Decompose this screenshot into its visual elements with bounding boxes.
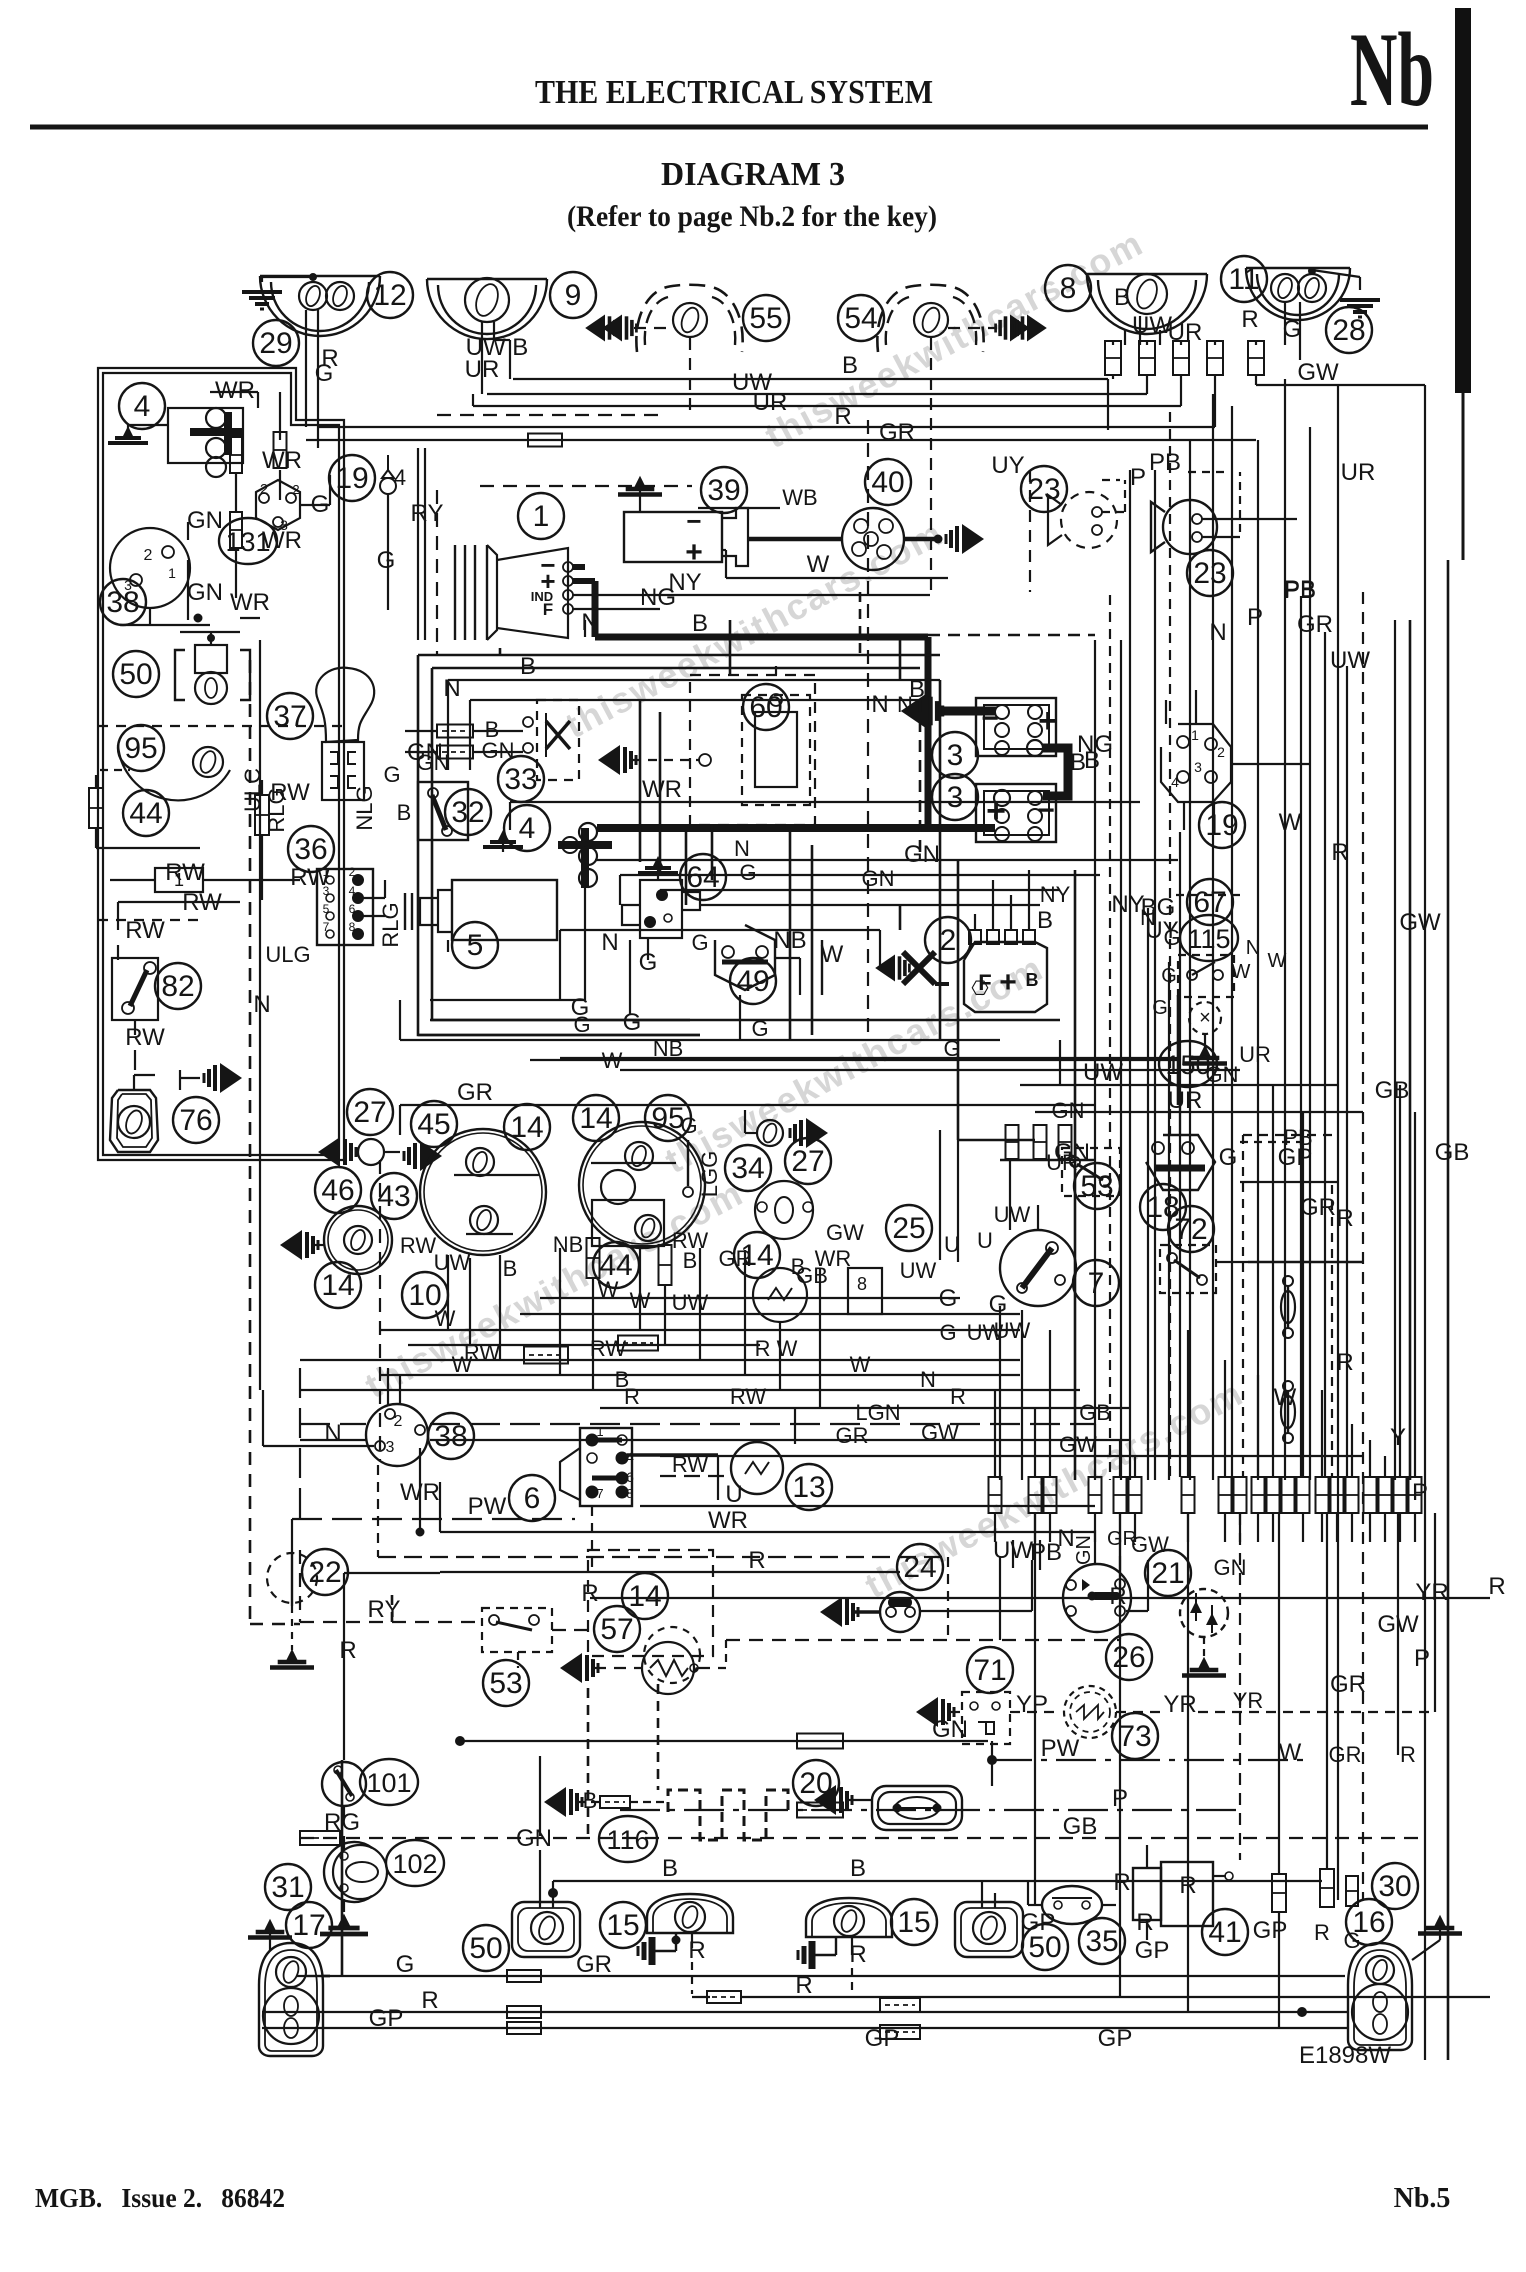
svg-text:GN: GN bbox=[904, 841, 940, 868]
svg-text:5: 5 bbox=[323, 902, 330, 916]
svg-text:UW: UW bbox=[1083, 1059, 1123, 1086]
svg-text:G: G bbox=[739, 860, 756, 885]
svg-text:B: B bbox=[692, 610, 708, 637]
svg-text:DIAGRAM 3: DIAGRAM 3 bbox=[661, 156, 845, 193]
svg-text:WR: WR bbox=[642, 776, 682, 803]
svg-text:LGG: LGG bbox=[697, 1151, 722, 1197]
svg-text:YR: YR bbox=[1233, 1688, 1264, 1713]
svg-text:P: P bbox=[1130, 464, 1146, 491]
svg-text:YR: YR bbox=[1163, 1691, 1196, 1718]
svg-text:GN: GN bbox=[187, 507, 223, 534]
svg-text:R: R bbox=[1336, 1205, 1353, 1232]
svg-text:E1898W: E1898W bbox=[1299, 2042, 1391, 2069]
svg-text:34: 34 bbox=[731, 1152, 764, 1185]
svg-text:Y: Y bbox=[1390, 1424, 1406, 1451]
svg-text:(Refer to page Nb.2 for the ke: (Refer to page Nb.2 for the key) bbox=[567, 200, 937, 233]
svg-text:22: 22 bbox=[308, 1556, 341, 1589]
svg-text:P: P bbox=[1247, 604, 1263, 631]
svg-text:102: 102 bbox=[392, 1849, 437, 1879]
svg-text:G: G bbox=[1161, 965, 1177, 987]
svg-text:GW: GW bbox=[1399, 909, 1441, 936]
svg-text:GP: GP bbox=[1021, 1909, 1056, 1936]
svg-text:R: R bbox=[950, 1384, 966, 1409]
svg-text:7: 7 bbox=[323, 920, 330, 934]
svg-text:R: R bbox=[339, 1637, 356, 1664]
svg-text:R: R bbox=[834, 403, 851, 430]
svg-text:UR: UR bbox=[1239, 1042, 1271, 1067]
svg-text:55: 55 bbox=[749, 302, 782, 335]
svg-text:2: 2 bbox=[349, 865, 356, 879]
svg-text:R: R bbox=[624, 1384, 640, 1409]
svg-text:GR: GR bbox=[1329, 1742, 1362, 1767]
svg-text:N: N bbox=[1209, 619, 1226, 646]
svg-text:2: 2 bbox=[940, 924, 957, 957]
svg-text:W: W bbox=[602, 1048, 623, 1073]
svg-text:G: G bbox=[383, 762, 400, 787]
svg-text:115: 115 bbox=[1187, 924, 1230, 954]
svg-text:1: 1 bbox=[168, 565, 176, 581]
svg-text:N: N bbox=[1246, 937, 1260, 959]
svg-text:PB: PB bbox=[1283, 1125, 1312, 1150]
svg-text:GB: GB bbox=[1063, 1813, 1098, 1840]
svg-text:GR: GR bbox=[1330, 1671, 1366, 1698]
svg-text:G: G bbox=[573, 1012, 590, 1037]
svg-text:P: P bbox=[1412, 1479, 1428, 1506]
svg-text:GN: GN bbox=[516, 1825, 552, 1852]
svg-text:YP: YP bbox=[1016, 1691, 1048, 1718]
svg-text:×: × bbox=[1199, 1007, 1211, 1029]
svg-text:W: W bbox=[1279, 809, 1302, 836]
svg-text:6: 6 bbox=[524, 1482, 541, 1515]
svg-text:RW: RW bbox=[672, 1452, 708, 1477]
svg-text:4: 4 bbox=[626, 1449, 634, 1465]
svg-text:30: 30 bbox=[1378, 1870, 1411, 1903]
svg-text:23: 23 bbox=[1193, 557, 1226, 590]
svg-text:116: 116 bbox=[606, 1825, 649, 1855]
svg-text:G: G bbox=[311, 491, 330, 518]
svg-text:28: 28 bbox=[1332, 314, 1365, 347]
svg-text:GW: GW bbox=[1059, 1432, 1097, 1457]
svg-text:GW: GW bbox=[921, 1420, 959, 1445]
svg-text:71: 71 bbox=[973, 1654, 1006, 1687]
svg-text:GR: GR bbox=[1297, 611, 1333, 638]
svg-text:GN: GN bbox=[1214, 1555, 1247, 1580]
svg-text:N: N bbox=[253, 991, 270, 1018]
svg-text:12: 12 bbox=[373, 279, 406, 312]
svg-text:GR: GR bbox=[576, 1951, 612, 1978]
svg-text:2: 2 bbox=[260, 481, 268, 498]
svg-text:G: G bbox=[1343, 1928, 1360, 1953]
svg-text:W: W bbox=[807, 551, 830, 578]
svg-text:R: R bbox=[581, 1580, 598, 1607]
svg-text:4: 4 bbox=[519, 812, 536, 845]
svg-text:R: R bbox=[1136, 1909, 1153, 1936]
svg-text:3: 3 bbox=[947, 739, 964, 772]
svg-text:11: 11 bbox=[1228, 263, 1259, 296]
svg-text:W: W bbox=[452, 1352, 473, 1377]
svg-text:14: 14 bbox=[628, 1580, 661, 1613]
svg-text:YR: YR bbox=[1415, 1579, 1448, 1606]
svg-text:B: B bbox=[842, 352, 858, 379]
svg-text:W: W bbox=[1279, 1739, 1302, 1766]
svg-text:UW: UW bbox=[900, 1258, 937, 1283]
svg-text:2: 2 bbox=[394, 1413, 403, 1430]
svg-text:53: 53 bbox=[489, 1667, 522, 1700]
svg-text:14: 14 bbox=[579, 1102, 612, 1135]
svg-text:G: G bbox=[377, 547, 396, 574]
svg-text:GP: GP bbox=[1135, 1937, 1170, 1964]
svg-text:WB: WB bbox=[782, 485, 817, 510]
svg-text:B: B bbox=[583, 1788, 598, 1813]
svg-text:GP: GP bbox=[865, 2025, 900, 2052]
svg-text:GR: GR bbox=[719, 1246, 752, 1271]
svg-text:GN: GN bbox=[932, 1716, 968, 1743]
svg-text:GR: GR bbox=[1300, 1194, 1336, 1221]
svg-text:9: 9 bbox=[565, 279, 582, 312]
svg-text:RW: RW bbox=[730, 1384, 766, 1409]
svg-text:RW: RW bbox=[125, 917, 165, 944]
svg-text:54: 54 bbox=[844, 302, 877, 335]
svg-text:GW: GW bbox=[826, 1220, 864, 1245]
svg-text:GB: GB bbox=[1435, 1139, 1470, 1166]
svg-text:38: 38 bbox=[106, 586, 139, 619]
svg-text:B: B bbox=[503, 1256, 518, 1281]
svg-text:3: 3 bbox=[1194, 759, 1202, 775]
svg-text:27: 27 bbox=[791, 1145, 824, 1178]
svg-text:5: 5 bbox=[467, 929, 484, 962]
svg-text:50: 50 bbox=[469, 1932, 502, 1965]
svg-text:UR: UR bbox=[753, 389, 788, 416]
svg-text:B: B bbox=[1026, 970, 1039, 990]
svg-text:R: R bbox=[748, 1547, 765, 1574]
svg-text:G: G bbox=[939, 1320, 956, 1345]
svg-text:GN: GN bbox=[862, 866, 895, 891]
svg-text:1: 1 bbox=[174, 870, 184, 890]
svg-text:Nb.5: Nb.5 bbox=[1394, 2183, 1451, 2214]
svg-text:UW: UW bbox=[434, 1250, 471, 1275]
svg-text:19: 19 bbox=[335, 462, 368, 495]
svg-text:WR: WR bbox=[262, 527, 302, 554]
svg-text:GP: GP bbox=[1253, 1917, 1288, 1944]
svg-text:P: P bbox=[1414, 1645, 1430, 1672]
svg-text:25: 25 bbox=[892, 1212, 925, 1245]
svg-text:RW: RW bbox=[165, 859, 205, 886]
svg-text:4: 4 bbox=[134, 390, 151, 423]
svg-text:G: G bbox=[1219, 1144, 1238, 1171]
svg-text:N: N bbox=[324, 1420, 341, 1447]
svg-text:B: B bbox=[850, 1855, 866, 1882]
svg-text:N: N bbox=[601, 929, 618, 956]
svg-text:GP: GP bbox=[369, 2005, 404, 2032]
svg-text:Nb: Nb bbox=[1350, 11, 1434, 128]
svg-text:GB: GB bbox=[1375, 1077, 1410, 1104]
svg-text:MGB. Issue 2. 86842: MGB. Issue 2. 86842 bbox=[35, 2183, 285, 2213]
svg-text:35: 35 bbox=[1085, 1925, 1118, 1958]
svg-text:GP: GP bbox=[1098, 2025, 1133, 2052]
svg-text:8: 8 bbox=[349, 920, 356, 934]
svg-text:101: 101 bbox=[366, 1768, 411, 1798]
svg-text:B: B bbox=[683, 1248, 698, 1273]
svg-text:R: R bbox=[421, 1987, 438, 2014]
svg-text:U: U bbox=[725, 1481, 742, 1508]
svg-text:N: N bbox=[897, 692, 913, 717]
svg-text:GN: GN bbox=[1206, 1062, 1239, 1087]
svg-text:UW: UW bbox=[994, 1202, 1031, 1227]
svg-text:14: 14 bbox=[321, 1269, 354, 1302]
svg-text:150: 150 bbox=[1165, 1050, 1210, 1080]
svg-text:2: 2 bbox=[144, 547, 153, 564]
svg-text:GN: GN bbox=[1052, 1098, 1085, 1123]
svg-text:G: G bbox=[680, 1113, 697, 1138]
svg-text:G: G bbox=[315, 360, 334, 387]
svg-text:95: 95 bbox=[124, 732, 157, 765]
svg-text:33: 33 bbox=[504, 763, 537, 796]
svg-text:PW: PW bbox=[468, 1493, 507, 1520]
svg-text:1: 1 bbox=[533, 500, 550, 533]
svg-text:WR: WR bbox=[708, 1507, 748, 1534]
svg-text:N: N bbox=[871, 691, 888, 718]
svg-text:LGN: LGN bbox=[855, 1400, 900, 1425]
svg-text:W: W bbox=[850, 1352, 871, 1377]
svg-text:B: B bbox=[1037, 907, 1053, 934]
svg-text:UW: UW bbox=[1330, 647, 1370, 674]
svg-text:73: 73 bbox=[1118, 1720, 1151, 1753]
svg-text:6: 6 bbox=[349, 902, 356, 916]
svg-text:1: 1 bbox=[596, 1424, 603, 1439]
svg-text:NY: NY bbox=[1040, 882, 1071, 907]
svg-text:7: 7 bbox=[1088, 1267, 1105, 1300]
svg-text:G: G bbox=[623, 1009, 642, 1036]
svg-text:G: G bbox=[691, 930, 708, 955]
svg-text:4: 4 bbox=[349, 884, 356, 898]
svg-text:G: G bbox=[1152, 997, 1168, 1019]
svg-text:R: R bbox=[1241, 306, 1258, 333]
svg-text:GB: GB bbox=[1079, 1400, 1111, 1425]
svg-text:45: 45 bbox=[417, 1108, 450, 1141]
svg-text:R: R bbox=[1314, 1920, 1330, 1945]
svg-text:UW: UW bbox=[672, 1290, 709, 1315]
svg-text:19: 19 bbox=[1205, 809, 1238, 842]
svg-text:THE ELECTRICAL SYSTEM: THE ELECTRICAL SYSTEM bbox=[535, 74, 933, 111]
svg-text:−: − bbox=[686, 506, 701, 536]
svg-text:17: 17 bbox=[292, 1909, 325, 1942]
svg-text:40: 40 bbox=[871, 466, 904, 499]
svg-text:GR: GR bbox=[879, 419, 915, 446]
svg-text:W: W bbox=[821, 941, 844, 968]
svg-text:R: R bbox=[1400, 1742, 1416, 1767]
svg-text:WR: WR bbox=[262, 447, 302, 474]
svg-text:UR: UR bbox=[1046, 1150, 1078, 1175]
svg-text:R: R bbox=[1336, 1349, 1353, 1376]
svg-text:B: B bbox=[662, 1855, 678, 1882]
svg-text:RLG: RLG bbox=[264, 787, 289, 832]
svg-text:6: 6 bbox=[626, 1469, 634, 1485]
svg-text:WR: WR bbox=[215, 377, 255, 404]
svg-text:B: B bbox=[1084, 747, 1100, 774]
svg-text:31: 31 bbox=[271, 1871, 304, 1904]
svg-text:8: 8 bbox=[626, 1486, 633, 1501]
svg-text:3: 3 bbox=[323, 884, 330, 898]
svg-text:UR: UR bbox=[1341, 459, 1376, 486]
svg-text:76: 76 bbox=[179, 1104, 212, 1137]
svg-text:37: 37 bbox=[273, 700, 306, 733]
svg-text:43: 43 bbox=[377, 1180, 410, 1213]
svg-text:50: 50 bbox=[119, 658, 152, 691]
svg-text:46: 46 bbox=[321, 1174, 354, 1207]
svg-text:UW: UW bbox=[1132, 312, 1172, 339]
svg-text:2: 2 bbox=[1217, 744, 1225, 760]
svg-text:8: 8 bbox=[857, 1274, 867, 1294]
svg-text:GN: GN bbox=[187, 579, 223, 606]
svg-text:GW: GW bbox=[1131, 1532, 1169, 1557]
svg-text:PW: PW bbox=[1041, 1735, 1080, 1762]
svg-text:RW: RW bbox=[125, 1024, 165, 1051]
svg-text:15: 15 bbox=[606, 1909, 639, 1942]
svg-text:G: G bbox=[1283, 316, 1302, 343]
svg-text:ULC: ULC bbox=[240, 768, 265, 812]
svg-text:+: + bbox=[999, 966, 1017, 999]
svg-text:GW: GW bbox=[1297, 359, 1339, 386]
svg-text:GN: GN bbox=[1073, 1535, 1095, 1565]
svg-text:N: N bbox=[920, 1367, 936, 1392]
svg-text:8: 8 bbox=[1060, 272, 1077, 305]
svg-text:W: W bbox=[435, 1306, 456, 1331]
svg-text:36: 36 bbox=[294, 833, 327, 866]
svg-text:RY: RY bbox=[368, 1596, 401, 1623]
svg-text:15: 15 bbox=[897, 1906, 930, 1939]
svg-text:1: 1 bbox=[323, 865, 330, 879]
svg-text:4: 4 bbox=[1171, 774, 1179, 790]
svg-text:82: 82 bbox=[161, 970, 194, 1003]
svg-text:21: 21 bbox=[1151, 1557, 1184, 1590]
svg-text:GR: GR bbox=[836, 1423, 869, 1448]
svg-text:GR: GR bbox=[457, 1079, 493, 1106]
svg-text:38: 38 bbox=[434, 1420, 467, 1453]
svg-text:F: F bbox=[978, 970, 991, 995]
svg-text:B: B bbox=[1114, 284, 1130, 311]
svg-text:NB: NB bbox=[553, 1232, 584, 1257]
svg-text:3: 3 bbox=[947, 781, 964, 814]
svg-text:39: 39 bbox=[707, 474, 740, 507]
svg-text:27: 27 bbox=[353, 1096, 386, 1129]
svg-text:13: 13 bbox=[792, 1471, 825, 1504]
svg-text:W: W bbox=[1268, 950, 1287, 972]
svg-text:UR: UR bbox=[465, 356, 500, 383]
svg-text:2: 2 bbox=[292, 482, 299, 497]
svg-text:RY: RY bbox=[411, 500, 444, 527]
svg-text:7: 7 bbox=[596, 1486, 603, 1501]
svg-text:NLG: NLG bbox=[352, 785, 377, 830]
svg-text:+: + bbox=[685, 536, 703, 569]
svg-text:B: B bbox=[520, 653, 536, 680]
svg-text:G: G bbox=[396, 1951, 415, 1978]
svg-text:3: 3 bbox=[386, 1439, 395, 1456]
svg-text:N: N bbox=[1140, 905, 1156, 930]
svg-text:N: N bbox=[443, 675, 460, 702]
svg-text:ULG: ULG bbox=[265, 942, 310, 967]
svg-text:29: 29 bbox=[259, 327, 292, 360]
svg-text:RLG: RLG bbox=[378, 902, 403, 947]
svg-text:57: 57 bbox=[600, 1613, 633, 1646]
svg-text:NG: NG bbox=[640, 584, 676, 611]
svg-text:GB: GB bbox=[796, 1263, 828, 1288]
svg-text:26: 26 bbox=[1112, 1641, 1145, 1674]
svg-text:RW: RW bbox=[400, 1233, 436, 1258]
svg-text:24: 24 bbox=[903, 1551, 936, 1584]
svg-text:R: R bbox=[1488, 1573, 1505, 1600]
svg-text:PB: PB bbox=[1149, 449, 1181, 476]
svg-text:U: U bbox=[977, 1228, 993, 1253]
svg-text:R W: R W bbox=[755, 1336, 798, 1361]
svg-text:4: 4 bbox=[394, 465, 406, 490]
svg-text:UW: UW bbox=[967, 1320, 1004, 1345]
svg-text:W: W bbox=[1232, 961, 1251, 983]
svg-text:UR: UR bbox=[1168, 1087, 1203, 1114]
svg-text:B: B bbox=[397, 800, 412, 825]
svg-text:N: N bbox=[734, 836, 750, 861]
svg-text:RW: RW bbox=[590, 1336, 626, 1361]
svg-text:UY: UY bbox=[991, 452, 1024, 479]
svg-text:14: 14 bbox=[510, 1111, 543, 1144]
svg-text:R: R bbox=[1113, 1869, 1130, 1896]
svg-text:GN: GN bbox=[482, 738, 515, 763]
svg-text:F: F bbox=[543, 600, 553, 619]
svg-text:+: + bbox=[1038, 702, 1058, 740]
svg-text:44: 44 bbox=[129, 797, 162, 830]
svg-text:1: 1 bbox=[1191, 727, 1199, 743]
